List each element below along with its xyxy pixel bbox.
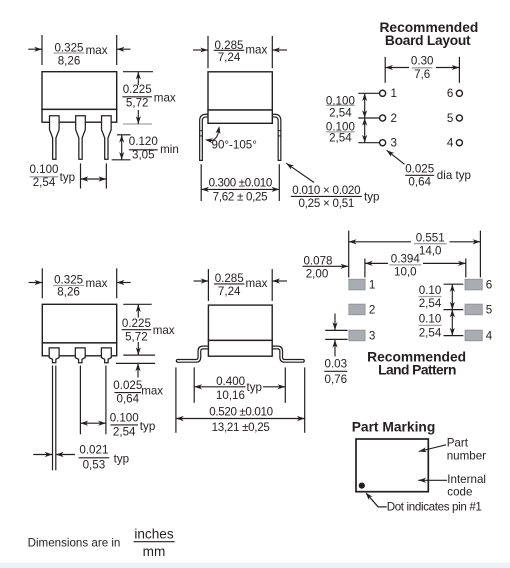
svg-text:4: 4	[447, 137, 454, 150]
svg-text:inches: inches	[134, 527, 173, 542]
dimension 0.285/7,24 max (SMD) - right arrow	[272, 280, 287, 282]
package base shelf (DIP front view)	[42, 109, 117, 122]
svg-text:0.10: 0.10	[419, 284, 442, 297]
package body (DIP side view)	[208, 72, 272, 110]
pad height extent lines	[325, 329, 347, 331]
svg-text:8,26: 8,26	[58, 54, 81, 67]
svg-text:2,54: 2,54	[419, 327, 442, 340]
package base shelf (SMD front view)	[42, 343, 116, 356]
pin 2 (SMD front view)	[75, 348, 85, 363]
svg-text:typ: typ	[114, 453, 129, 466]
pin 2 (DIP front view)	[76, 116, 86, 160]
hole pitch double arrow upper	[364, 93, 366, 118]
svg-text:14,0: 14,0	[419, 245, 442, 258]
land pad 5	[465, 304, 482, 315]
dimension 0.400/10,16 typ - dimension line	[194, 386, 245, 388]
svg-text:0.03: 0.03	[325, 358, 348, 371]
svg-text:7,62 ± 0,25: 7,62 ± 0,25	[213, 191, 268, 204]
land pad 6	[465, 279, 482, 290]
svg-text:5,72: 5,72	[126, 97, 149, 110]
dimension 0.078/2,00 pad width leader	[303, 265, 349, 267]
package body (DIP front view)	[42, 72, 117, 110]
dimension 0.30/7,6 - right arrow	[436, 67, 459, 69]
svg-text:0.10: 0.10	[419, 313, 442, 326]
dimension 0.021/0,53 typ foot width - extension lines	[52, 366, 54, 471]
svg-text:typ: typ	[140, 420, 155, 433]
svg-text:0.025: 0.025	[113, 379, 142, 392]
dimension 0.325/8,26 max (SMD) - extension lines	[41, 268, 43, 298]
hole pin 1	[380, 90, 386, 96]
dot leader arrow	[378, 506, 386, 508]
pin 1 (SMD front view)	[49, 348, 59, 363]
dimension 0.300 ±0.010 - dimension line	[201, 188, 279, 190]
dimension 0.225/5,72 max (SMD) - down arrow	[137, 342, 139, 355]
dimension 0.225/5,72 max (SMD) - up arrow	[137, 304, 139, 317]
package body (SMD front view)	[42, 304, 116, 343]
svg-text:0.300 ±0.010: 0.300 ±0.010	[209, 177, 272, 190]
svg-text:1: 1	[369, 279, 375, 292]
dimension 0.225/5,72 max - up arrow	[137, 72, 139, 85]
svg-text:6: 6	[486, 279, 492, 292]
dimension 0.100/2,54 typ - double arrow	[81, 178, 107, 180]
svg-text:2,54: 2,54	[419, 297, 442, 310]
dimension 0.225/5,72 max - down arrow	[137, 110, 139, 124]
dimension 0.551/14,0 overall span - extension lines	[348, 231, 350, 278]
svg-text:0,25 × 0,51: 0,25 × 0,51	[299, 197, 355, 210]
svg-text:3: 3	[391, 137, 397, 150]
svg-text:max: max	[245, 44, 267, 57]
svg-text:5: 5	[447, 112, 453, 125]
svg-text:2,54: 2,54	[329, 132, 352, 145]
dimension 0.30/7,6 - left arrow	[385, 67, 409, 69]
svg-text:90°-105°: 90°-105°	[212, 139, 257, 152]
hole pin 3	[380, 140, 386, 146]
svg-text:10,16: 10,16	[216, 389, 245, 402]
svg-text:Dot indicates pin #1: Dot indicates pin #1	[387, 501, 482, 514]
dimension 0.100/2,54 typ pin pitch - extension lines	[80, 163, 82, 188]
dimension 0.325/8,26 max (SMD) - left arrow	[29, 282, 43, 284]
svg-text:0.021: 0.021	[79, 444, 108, 457]
svg-text:0,64: 0,64	[117, 393, 140, 406]
svg-text:0.025: 0.025	[405, 162, 434, 175]
svg-text:0.551: 0.551	[416, 232, 445, 245]
dimension 0.100/2,54 typ (SMD) - double arrow	[80, 422, 106, 424]
pad height down arrow	[334, 314, 336, 331]
svg-text:typ: typ	[247, 381, 262, 394]
svg-text:5: 5	[486, 304, 492, 317]
land pad 2	[349, 304, 365, 315]
dimension 0.025/0,64 max foot height - up arrow	[137, 363, 139, 377]
left gull-wing lead (SMD side view)	[178, 348, 211, 361]
dimension 0.285/7,24 max (SMD) - extension lines	[207, 269, 209, 301]
svg-text:number: number	[447, 450, 486, 463]
pin 1 dot	[359, 483, 365, 489]
svg-text:Dimensions are in: Dimensions are in	[28, 537, 121, 550]
svg-text:max: max	[86, 44, 108, 57]
pad pitch tick lines	[444, 283, 464, 285]
hole pin 6	[456, 90, 462, 96]
svg-text:Part Marking: Part Marking	[352, 419, 436, 434]
svg-text:10,0: 10,0	[394, 265, 417, 278]
package body (SMD side view)	[208, 305, 272, 340]
svg-text:0.100: 0.100	[29, 163, 58, 176]
svg-text:4: 4	[486, 330, 493, 343]
svg-text:8,26: 8,26	[57, 285, 80, 298]
dimension 0.551/14,0 - dimension line	[349, 241, 411, 243]
part marking outline box	[356, 439, 428, 492]
svg-text:Internal: Internal	[447, 473, 486, 486]
dimension 0.300 ±0.010 lead span - extension lines	[200, 164, 202, 201]
lead angle curved arrow	[207, 128, 219, 140]
svg-text:2,00: 2,00	[306, 268, 329, 281]
svg-text:0.100: 0.100	[110, 412, 139, 425]
svg-text:0.078: 0.078	[303, 254, 332, 267]
svg-text:0.520 ±0.010: 0.520 ±0.010	[209, 406, 272, 419]
hole diameter leader arrow	[387, 150, 405, 164]
dimension 0.100/2,54 typ (SMD) - extension lines	[79, 366, 81, 435]
svg-text:0.225: 0.225	[123, 83, 152, 96]
pad pitch double arrow upper	[451, 284, 453, 309]
foot seating plane line	[116, 362, 155, 364]
svg-text:7,6: 7,6	[414, 68, 430, 81]
svg-text:1: 1	[391, 87, 397, 100]
svg-text:0.010 × 0.020: 0.010 × 0.020	[292, 184, 360, 197]
dimension 0.325/8,26 max (SMD) - right arrow	[117, 282, 131, 284]
package base (DIP side view)	[208, 110, 272, 123]
right gull-wing lead (SMD side view)	[270, 348, 303, 361]
dimension 0.520 ±0.010 - dimension line	[176, 418, 305, 420]
dimension 0.120/3,05 min pin length - tick lines	[117, 134, 131, 136]
bottom page bar	[0, 563, 510, 568]
svg-text:0,76: 0,76	[325, 373, 348, 386]
svg-text:max: max	[86, 277, 108, 290]
svg-text:0.30: 0.30	[411, 54, 434, 67]
pin 1 (DIP front view)	[50, 116, 60, 160]
svg-text:13,21 ±0,25: 13,21 ±0,25	[212, 421, 270, 434]
left lead (DIP side view)	[201, 116, 211, 160]
dimension 0.285/7,24 max - right arrow	[272, 49, 287, 51]
pad pitch double arrow lower	[451, 310, 453, 336]
land pad 1	[349, 279, 365, 290]
land pad 4	[465, 330, 482, 341]
svg-text:3,05: 3,05	[132, 149, 155, 162]
svg-text:max: max	[246, 277, 268, 290]
part number leader arrow	[419, 445, 446, 452]
svg-text:typ: typ	[364, 191, 379, 204]
pin 3 (DIP front view)	[102, 116, 112, 160]
svg-text:Part: Part	[447, 437, 469, 450]
svg-text:6: 6	[447, 87, 453, 100]
dimension 0.325/8,26 max - left arrow	[28, 48, 42, 50]
dimension 0.285/7,24 max (SMD) - left arrow	[194, 280, 209, 282]
package base (SMD side view)	[208, 340, 272, 356]
dimension 0.400/10,16 typ foot bend span - extension lines	[193, 367, 195, 402]
dimension 0.520 ±0.010 overall span - extension lines	[175, 367, 177, 432]
dimension 0.325/8,26 max body width - extension lines	[41, 35, 43, 65]
dimension 0.285/7,24 max - left arrow	[193, 49, 208, 51]
svg-text:0,53: 0,53	[83, 459, 106, 472]
dimension 0.394/10,0 inner span - extension lines	[364, 259, 366, 278]
dimension 0.285/7,24 max - extension lines	[207, 36, 209, 68]
svg-text:0.285: 0.285	[215, 272, 244, 285]
hole pin 2	[380, 115, 386, 121]
right lead (DIP side view)	[270, 116, 280, 160]
dimension 0.225/5,72 max body height - extension lines	[123, 71, 153, 73]
svg-text:2: 2	[391, 112, 397, 125]
svg-text:0,64: 0,64	[408, 175, 431, 188]
hole pitch double arrow lower	[364, 118, 366, 143]
svg-text:typ: typ	[60, 171, 75, 184]
svg-text:2,54: 2,54	[33, 176, 56, 189]
svg-text:2: 2	[369, 304, 375, 317]
svg-text:0.120: 0.120	[129, 135, 158, 148]
svg-text:5,72: 5,72	[125, 330, 148, 343]
svg-text:max: max	[153, 324, 175, 337]
hole pin 5	[456, 115, 462, 121]
dimension 0.225/5,72 max (SMD) - extension lines	[123, 303, 151, 305]
svg-text:0.400: 0.400	[216, 375, 245, 388]
dimension 0.325/8,26 max - right arrow	[117, 48, 131, 50]
dimension 0.30/7,6 hole column span - extension lines	[384, 57, 386, 83]
dimension 0.120/3,05 min - double arrow	[121, 135, 123, 160]
svg-text:dia typ: dia typ	[437, 169, 471, 182]
hole pitch tick lines	[358, 92, 379, 94]
svg-text:2,54: 2,54	[113, 426, 136, 439]
svg-text:0.225: 0.225	[122, 317, 151, 330]
svg-text:mm: mm	[143, 544, 166, 559]
svg-text:min: min	[160, 143, 179, 156]
hole pin 4	[456, 140, 462, 146]
lead cross-section leader arrow	[286, 163, 314, 182]
svg-text:3: 3	[369, 330, 375, 343]
svg-text:7,24: 7,24	[218, 285, 241, 298]
pin 3 (SMD front view)	[101, 348, 111, 363]
dimension 0.021/0,53 typ - right arrow	[56, 454, 75, 456]
pad height up arrow	[334, 340, 336, 357]
svg-text:2,54: 2,54	[329, 106, 352, 119]
dimension 0.394/10,0 - dimension line	[365, 262, 388, 264]
svg-text:Land Pattern: Land Pattern	[378, 363, 456, 378]
dimension 0.021/0,53 typ - left arrow	[33, 454, 52, 456]
land pad 3	[349, 330, 365, 341]
internal code leader arrow	[418, 479, 447, 481]
svg-text:code: code	[447, 486, 472, 499]
svg-text:7,24: 7,24	[218, 51, 241, 64]
svg-text:Board Layout: Board Layout	[385, 33, 471, 48]
svg-text:max: max	[154, 92, 176, 105]
svg-text:max: max	[141, 385, 163, 398]
svg-text:0.394: 0.394	[391, 252, 421, 265]
